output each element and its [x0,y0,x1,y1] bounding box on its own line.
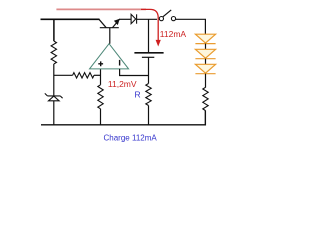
current path highlight (salmon top line) [56,8,146,10]
wire minus input to sense node [120,69,149,76]
resistor R-horizontal [73,73,94,78]
wire middle bottom [100,109,102,125]
battery tap wire [148,19,150,52]
wire diode to switch [137,18,157,20]
wire led1-led2 [205,44,207,50]
wire left branch bottom [53,101,55,125]
wire plus input stub [100,69,102,85]
svg-text:112mA: 112mA [160,29,187,39]
wire sense resistor bottom [148,106,150,126]
transistor Q1 [99,19,120,27]
op-amp U1 [90,44,129,69]
wire top rail left [41,18,100,20]
wire to plus input [94,74,101,76]
svg-text:Charge 112mA: Charge 112mA [104,133,158,142]
wire left branch top [53,19,55,41]
wire led3 to resistor [205,74,207,88]
current arrowhead [156,40,161,47]
wire op-amp output to base [109,28,111,44]
wire battery to sense node [148,57,150,83]
zener diode D-left [45,93,63,100]
wire emitter to diode [119,18,131,20]
resistor R-right [203,87,208,110]
resistor R-left [51,41,56,64]
wire left branch middle [53,64,55,96]
svg-text:11,2mV: 11,2mV [108,79,137,89]
wire led2-led3 [205,59,207,65]
resistor R-middle [98,85,103,109]
transistor emitter arrowhead [114,19,120,25]
battery B1 plate+ [134,52,163,54]
op-amp minus mark (rotated) [119,60,121,66]
wire switch to right branch [176,19,206,34]
op-amp plus mark [98,61,103,66]
battery B1 plate- [142,56,154,58]
svg-text:R: R [135,90,141,100]
diode D1 [131,14,137,23]
current arrow (red curve into battery) [141,9,158,40]
wire right bottom [204,111,206,125]
node junction left [54,74,73,76]
LED D4 [195,64,215,73]
LED D3 [195,49,215,58]
switch S1 [159,10,175,21]
LED D2 [195,34,215,43]
resistor R (sense) [146,84,151,106]
wire bottom rail [41,111,205,125]
